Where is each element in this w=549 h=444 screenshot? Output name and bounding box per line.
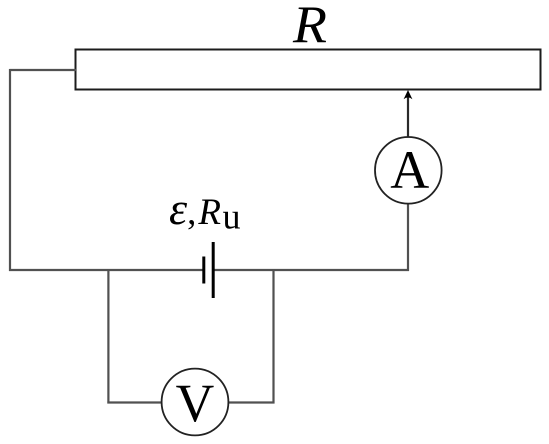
arrowhead wiper contact xyxy=(404,90,413,99)
resistor R (slide-wire rheostat body) xyxy=(76,50,541,90)
wire bottom horizontal right segment xyxy=(213,269,409,271)
battery cell short plate xyxy=(202,257,205,284)
svg-text:V: V xyxy=(176,373,215,433)
wire top-left horizontal xyxy=(10,69,77,71)
wire voltmeter left vertical xyxy=(107,269,109,404)
voltmeter: circle V xyxy=(162,369,229,436)
wire voltmeter left horizontal xyxy=(107,401,162,403)
battery cell long plate xyxy=(212,242,215,298)
svg-text:A: A xyxy=(390,140,429,200)
wire voltmeter right vertical xyxy=(272,269,274,404)
wire voltmeter right horizontal xyxy=(229,401,275,403)
ammeter U: circle A xyxy=(375,137,442,204)
wire bottom horizontal left segment xyxy=(9,269,204,271)
wire ammeter vertical lower xyxy=(407,204,409,271)
wire ammeter vertical upper with arrow xyxy=(407,97,409,138)
svg-text:ε,Ru: ε,Ru xyxy=(169,183,241,237)
wire left vertical xyxy=(9,69,11,271)
svg-text:R: R xyxy=(292,0,327,54)
